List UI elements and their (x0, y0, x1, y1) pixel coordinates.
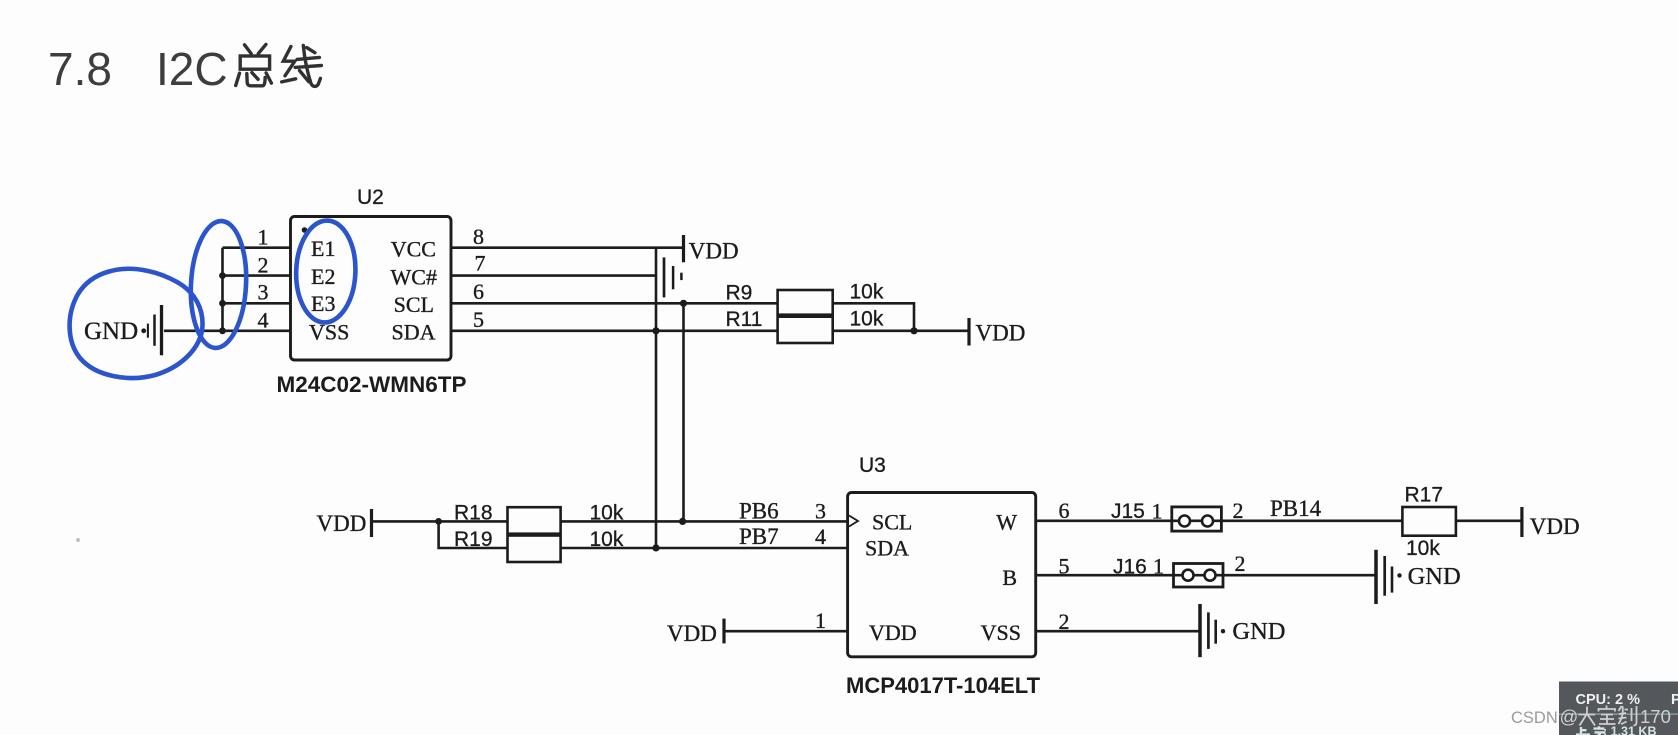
svg-text:CSDN: CSDN (1511, 709, 1558, 727)
svg-text:R11: R11 (726, 308, 763, 331)
svg-text:GND: GND (84, 318, 138, 345)
svg-text:2: 2 (258, 252, 269, 277)
svg-text:E1: E1 (311, 236, 335, 261)
svg-text:VSS: VSS (981, 620, 1021, 645)
svg-text:WC#: WC# (391, 264, 437, 289)
svg-text:R18: R18 (454, 502, 493, 525)
svg-text:W: W (996, 510, 1017, 535)
svg-text:PB7: PB7 (739, 524, 779, 549)
svg-text:5: 5 (473, 307, 484, 332)
svg-text:MCP4017T-104ELT: MCP4017T-104ELT (846, 673, 1041, 698)
svg-text:2: 2 (1059, 609, 1070, 634)
svg-text:6: 6 (473, 279, 484, 304)
svg-text:U3: U3 (859, 454, 886, 477)
svg-text:VDD: VDD (869, 620, 917, 645)
svg-text:5: 5 (1059, 554, 1070, 579)
svg-text:SCL: SCL (394, 292, 434, 317)
svg-text:J16: J16 (1113, 556, 1147, 579)
svg-text:4: 4 (815, 524, 826, 549)
svg-text:I2C: I2C (156, 43, 228, 95)
svg-text:2: 2 (1233, 498, 1244, 523)
svg-text:7.8: 7.8 (48, 43, 112, 95)
svg-text:6: 6 (1059, 498, 1070, 523)
svg-text:VDD: VDD (317, 511, 367, 536)
svg-text:VDD: VDD (976, 321, 1026, 346)
svg-text:1: 1 (1152, 499, 1163, 524)
svg-text:3: 3 (815, 499, 826, 524)
svg-text:10k: 10k (850, 308, 884, 331)
svg-text:E3: E3 (311, 291, 335, 316)
svg-text:7: 7 (475, 251, 486, 276)
svg-text:CPU: 2 %: CPU: 2 % (1576, 692, 1641, 708)
svg-text:SDA: SDA (391, 320, 435, 345)
svg-text:10k: 10k (1406, 537, 1440, 560)
svg-text:8: 8 (473, 224, 484, 249)
svg-text:P: P (1671, 692, 1678, 708)
svg-text:1: 1 (1153, 554, 1164, 579)
svg-text:R17: R17 (1405, 484, 1444, 507)
svg-text:VDD: VDD (667, 621, 717, 646)
svg-text:PB14: PB14 (1270, 496, 1322, 521)
svg-text:J15: J15 (1111, 500, 1145, 523)
svg-text:R19: R19 (454, 528, 493, 551)
svg-text:10k: 10k (590, 528, 624, 551)
svg-text:10k: 10k (590, 502, 624, 525)
svg-text:4: 4 (258, 308, 269, 333)
svg-text:U2: U2 (357, 186, 384, 209)
svg-text:GND: GND (1232, 618, 1285, 645)
svg-text:1: 1 (815, 608, 826, 633)
svg-text:B: B (1002, 565, 1017, 590)
svg-text:SDA: SDA (865, 536, 909, 561)
svg-text:GND: GND (1408, 563, 1461, 590)
svg-text:1: 1 (258, 225, 269, 250)
svg-text:VDD: VDD (1530, 514, 1580, 539)
svg-text:SCL: SCL (872, 510, 912, 535)
svg-text:R9: R9 (726, 282, 753, 305)
svg-text:E2: E2 (311, 264, 335, 289)
svg-text:VCC: VCC (391, 237, 436, 262)
svg-text:2: 2 (1235, 551, 1246, 576)
svg-text:10k: 10k (850, 281, 884, 304)
svg-text:: 1.31 KB: : 1.31 KB (1603, 725, 1657, 735)
svg-text:@: @ (1560, 706, 1579, 727)
svg-text:3: 3 (258, 280, 269, 305)
svg-text:VDD: VDD (689, 239, 739, 264)
svg-text:PB6: PB6 (739, 499, 779, 524)
svg-text:M24C02-WMN6TP: M24C02-WMN6TP (277, 372, 467, 397)
